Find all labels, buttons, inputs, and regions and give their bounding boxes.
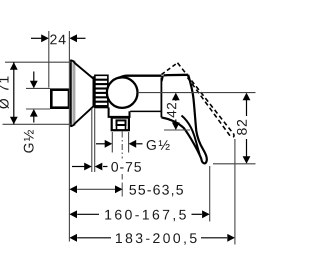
handle raised position (dashed) <box>162 63 235 138</box>
dimension 0-75 <box>72 162 141 172</box>
escutcheon cone <box>70 60 93 126</box>
lever handle base <box>161 75 188 118</box>
dimension 24 (top) <box>31 31 86 88</box>
dimension 82 (right) <box>213 93 256 164</box>
dimension 183-200,5 <box>69 233 235 245</box>
handle underside silhouette curve <box>182 116 200 155</box>
dimension 42 <box>164 93 190 130</box>
dimension G1/2 outlet (below body) <box>96 132 170 153</box>
supply pipe (wall connection, thick section) <box>51 90 69 108</box>
center line of body (horizontal, right) <box>138 92 256 94</box>
dimension 55-63,5 <box>69 185 183 197</box>
dimension 160-167,5 <box>69 210 209 222</box>
0-75 reference double line <box>92 109 95 173</box>
escutcheon wall plate <box>70 60 76 127</box>
dimension G1/2 supply (left, vertical) <box>24 72 50 153</box>
outlet hose nut (G1/2) <box>112 118 129 131</box>
outlet collar under body <box>109 108 130 117</box>
valve body (circle) <box>107 77 138 108</box>
wall reference line (long vertical) <box>68 31 70 242</box>
dashed handle end extension line <box>234 139 236 245</box>
body underside line to outlet <box>130 110 160 112</box>
knurled nut (ribbed) <box>95 75 108 107</box>
body top flat <box>119 76 161 78</box>
handle notch <box>161 76 164 82</box>
outlet center line (dash-dot vertical) <box>121 132 123 197</box>
dimension diameter 71 (left) <box>0 62 71 124</box>
lever handle blade (outer edge, tip, inner edge) <box>161 75 206 164</box>
handle tip extension line <box>209 166 211 222</box>
